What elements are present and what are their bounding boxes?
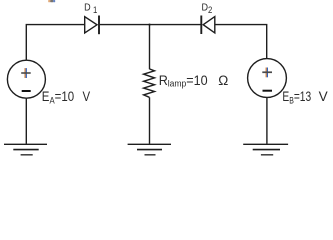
svg-text:V: V xyxy=(319,89,329,104)
ground right xyxy=(243,144,288,155)
resistor Rlamp xyxy=(144,69,155,97)
svg-text:EB=13: EB=13 xyxy=(282,88,311,105)
wire D2 anode to top-right corner down to E_B xyxy=(215,25,267,59)
wire resistor to middle ground xyxy=(149,97,151,144)
wire node down to resistor xyxy=(149,25,151,70)
ground left xyxy=(4,144,47,155)
voltage source E_A xyxy=(7,60,45,98)
svg-text:EA=10: EA=10 xyxy=(42,88,74,106)
ground middle xyxy=(128,144,171,155)
svg-text:D2: D2 xyxy=(202,2,213,15)
cropped text fragment at top edge xyxy=(48,0,55,2)
svg-text:Rlamp=10: Rlamp=10 xyxy=(159,72,208,88)
wire E_A to left ground xyxy=(25,99,27,144)
wire D1 cathode to node xyxy=(100,24,150,26)
diode D1 xyxy=(85,16,99,35)
wire node to D2 cathode xyxy=(150,24,201,26)
svg-text:Ω: Ω xyxy=(218,73,228,88)
svg-text:D1: D1 xyxy=(84,2,98,15)
diode D2 xyxy=(201,16,215,35)
svg-text:V: V xyxy=(83,88,91,104)
voltage source E_B xyxy=(248,59,287,98)
wire top-left (corner from E_A to D1 anode) xyxy=(26,25,84,60)
wire E_B to right ground xyxy=(266,98,268,144)
node junction xyxy=(149,24,151,26)
